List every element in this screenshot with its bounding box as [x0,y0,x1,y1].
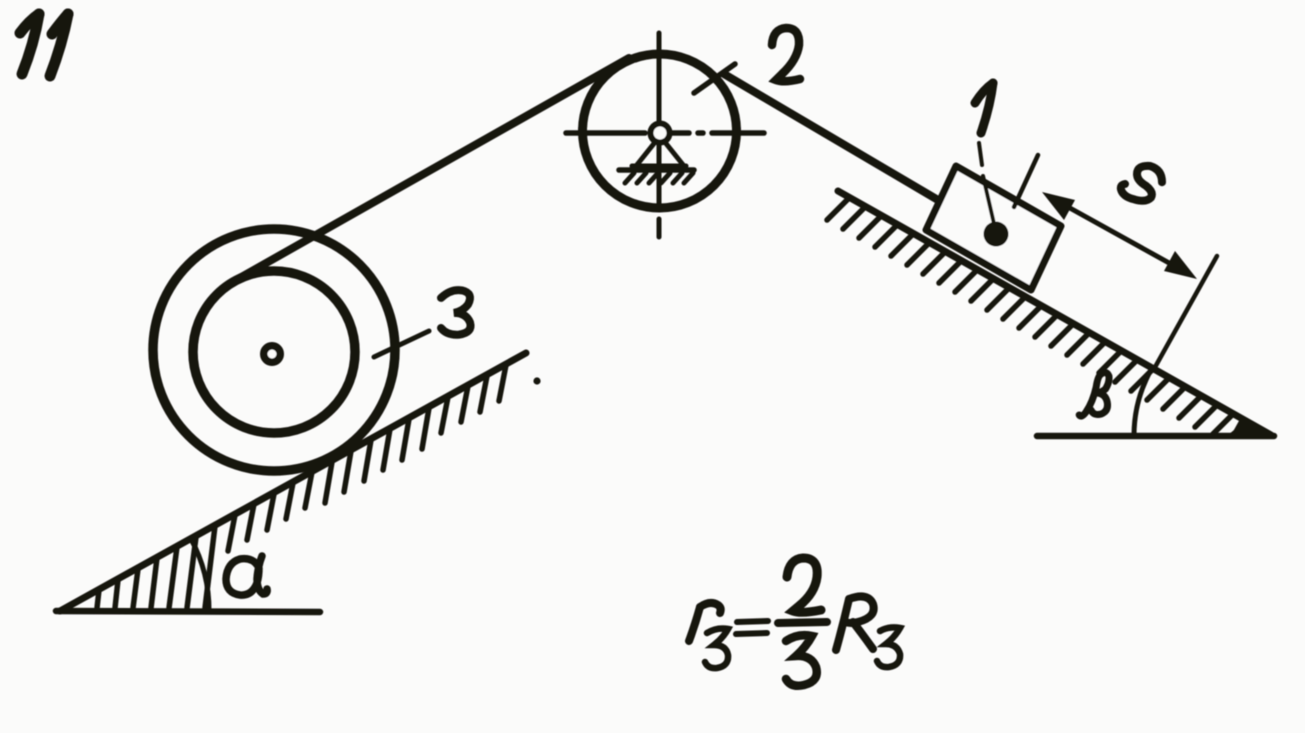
angle beta arc [1134,368,1152,435]
subscript 3 of R [877,627,900,667]
r [689,607,700,641]
support ground line [619,167,694,173]
leader for label 3 [374,331,429,357]
S dimension end tick [1154,256,1217,369]
block center dot [984,222,1009,247]
pulley 2 rim [583,54,737,208]
pulley 2 pin [651,124,670,143]
leader for label 2 [694,64,735,93]
block 1 [926,166,1061,290]
S dimension arrow line [1050,197,1189,274]
denominator 3 [786,635,817,686]
S arrowhead left [1042,192,1075,220]
pulley 2 vertical centerline [657,33,662,237]
left incline surface [60,353,526,611]
label 3 [441,290,471,335]
right incline surface [838,191,1271,435]
label 1 [975,83,993,133]
pulley 2 horizontal centerline (dash-dot) [566,130,764,136]
speck after hatching [533,377,540,384]
angle alpha arc [191,539,209,611]
right incline hatching [827,199,1247,436]
rope from pulley 2 to block 1 [724,74,938,200]
S dimension start tick [1014,155,1038,207]
wheel 3 outer circle [153,229,395,471]
dark wedge at right vertex [1230,419,1276,437]
wheel 3 inner circle [193,271,355,433]
label 2 [772,28,800,81]
S arrowhead right [1164,251,1197,279]
rope from wheel 3 to pulley 2 [229,58,629,284]
subscript 3 of r [705,629,728,669]
fraction bar [778,622,827,623]
R [836,599,849,650]
label S [1121,166,1162,201]
right baseline [1037,433,1274,440]
equals sign [737,621,768,622]
numerator 2 [787,558,821,612]
leader for label 1 [979,143,995,228]
problem number 11 [20,14,68,76]
pinned support triangle [632,141,686,166]
left baseline [56,611,320,612]
formula: r3 = 2/3 R3 [689,558,900,686]
label beta [1079,372,1109,416]
support hatching [625,173,693,183]
label alpha [226,556,267,595]
wheel 3 hub [264,346,281,363]
left incline hatching [97,365,506,608]
